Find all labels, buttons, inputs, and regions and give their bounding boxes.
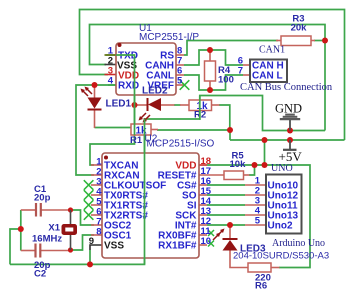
- svg-text:R1: R1: [130, 135, 143, 146]
- wire SPI CS row: [207, 184, 245, 186]
- crystal X1: [62, 210, 77, 250]
- lead R5 right: [244, 174, 250, 176]
- wire VSS U2 to rail: [89, 250, 91, 264]
- svg-text:MCP2515-I/SO: MCP2515-I/SO: [147, 138, 215, 149]
- resistor R3: [281, 36, 311, 46]
- svg-text:LED1: LED1: [106, 99, 132, 110]
- wire VSS inner loop from U1 pin2: [90, 25, 326, 131]
- U2 pin numbers left: [89, 157, 103, 248]
- svg-text:CAN1: CAN1: [259, 45, 285, 56]
- svg-text:LED2: LED2: [142, 86, 168, 97]
- pin stub U1.8 RS: [176, 54, 184, 56]
- junction VDD row drop: [262, 162, 268, 168]
- lead LED3 anode: [229, 226, 231, 239]
- pin stub U2.9 VSS black: [90, 245, 102, 250]
- lead C2 left: [21, 250, 36, 252]
- U1 pin names: [117, 51, 174, 92]
- pin stub CAN1.7: [243, 74, 250, 76]
- wire VDD outer loop from U1 pin3: [80, 10, 345, 141]
- svg-text:100: 100: [218, 75, 234, 86]
- svg-text:R6: R6: [255, 281, 267, 292]
- junction VSS rail: [87, 261, 93, 267]
- lead LED1 cathode: [94, 110, 96, 128]
- svg-text:RX1BF#: RX1BF#: [158, 241, 197, 252]
- lead R6 left from LED3: [230, 251, 248, 268]
- U1 labels: [139, 23, 199, 43]
- pin stub U2.13: [199, 214, 207, 216]
- pin stub U2.17 with R5 lead: [199, 174, 224, 176]
- lead R1 right: [151, 129, 158, 131]
- pin stub U2.14: [199, 204, 207, 206]
- stubs and component leads (salmon red): [21, 41, 315, 268]
- wire caps to GND rail: [10, 229, 21, 264]
- pin stub U1.3 VDD: [105, 74, 117, 76]
- wire U2 VDD row: [207, 165, 310, 268]
- LED1: [81, 87, 102, 110]
- svg-text:Uno2: Uno2: [268, 221, 293, 232]
- lead R4 bottom: [209, 81, 211, 90]
- pin stub U1.1 TXD olive overlay: [105, 54, 117, 56]
- wire GND bottom rail to upper GND segment: [10, 96, 325, 265]
- lead R2 left: [180, 104, 189, 106]
- pin stub UNO.4: [245, 214, 266, 216]
- junction R3 right: [322, 38, 328, 44]
- svg-text:UNO: UNO: [271, 163, 293, 174]
- pin stub U2.6: [91, 214, 102, 216]
- lead LED2 left: [136, 104, 147, 106]
- wire GND riser overlay crossing U2 R1 R2: [144, 119, 146, 264]
- wire LED2 to R2: [174, 104, 181, 106]
- wire RXD from U1 pin4 down to U2 RXCAN: [76, 85, 116, 175]
- pin stub U2.3: [91, 184, 102, 186]
- wire SPI SCK row: [207, 214, 245, 216]
- svg-text:4: 4: [108, 76, 114, 87]
- pin stub U2.10: [199, 244, 207, 246]
- wire CANH routing: [184, 50, 243, 65]
- junction LED2 on TXD drop: [132, 102, 138, 108]
- IC U2 MCP2515 body: [102, 153, 199, 258]
- no-connect U2.6: [84, 210, 94, 220]
- wire R2 right down to rail: [219, 105, 230, 130]
- svg-text:16MHz: 16MHz: [32, 234, 62, 245]
- U2 pin numbers right: [201, 156, 212, 247]
- component value labels: [32, 14, 329, 292]
- svg-text:204-10SURD/S530-A3: 204-10SURD/S530-A3: [233, 251, 329, 262]
- svg-text:20p: 20p: [34, 193, 51, 204]
- capacitor C2: [36, 244, 41, 258]
- pin stub U2.4: [91, 194, 102, 196]
- no-connect U2.5: [84, 200, 94, 210]
- pin stub U1.4 RXD green: [108, 84, 116, 86]
- lead R2 right: [212, 104, 220, 106]
- wire TXD vertical overlay crossing U1 and R1: [116, 55, 135, 135]
- wire R3 right to GND loop: [314, 40, 325, 42]
- wire INT row: [207, 224, 245, 226]
- pin stub U2.1 TXCAN: [91, 164, 102, 166]
- svg-text:RXD: RXD: [118, 81, 139, 92]
- pin stub U2.5: [91, 204, 102, 206]
- no-connect U1.5: [180, 80, 190, 90]
- lead LED1 anode: [94, 86, 96, 98]
- junction +5V drop: [262, 137, 268, 143]
- pin stub UNO.3: [245, 204, 266, 206]
- wire C1 C2 left join: [20, 210, 22, 251]
- pin stub UNO.1: [245, 184, 266, 186]
- wire SPI SI row: [207, 204, 245, 206]
- pin stub CAN1.6: [243, 64, 250, 66]
- no-connect U2.11: [208, 230, 214, 236]
- lead R4 top: [209, 50, 211, 61]
- pin stub U1.5 VREF: [176, 84, 184, 86]
- no-connect U2.3: [84, 180, 94, 190]
- resistor R6: [248, 263, 271, 272]
- pin stub U1.2 VSS: [105, 64, 117, 66]
- capacitor C1: [36, 203, 41, 217]
- IC U1 MCP2551 body: [116, 43, 176, 95]
- LED3: [213, 229, 238, 251]
- junction R4 bottom: [207, 87, 213, 93]
- no-connect X marks: [84, 80, 214, 246]
- lead C1 right: [41, 209, 71, 211]
- pin stub U2.15: [199, 194, 207, 196]
- lead R6 right: [271, 267, 280, 269]
- resistor R2: [189, 100, 212, 112]
- svg-text:X1: X1: [48, 223, 60, 234]
- svg-text:CAN L: CAN L: [252, 71, 283, 82]
- junction R4 top: [207, 47, 213, 53]
- no-connect U2.10: [208, 241, 214, 247]
- wire crystal top to OSC2: [71, 210, 95, 225]
- junction crystal bottom: [68, 247, 73, 252]
- U2 labels: [145, 134, 215, 150]
- svg-text:C2: C2: [34, 269, 46, 280]
- wire TXD from U1 pin1 through chip to U2 TXCAN: [106, 55, 135, 124]
- junction caps left: [18, 226, 24, 232]
- junction LED3 anode on INT: [227, 222, 233, 228]
- connector CAN1 body: [250, 60, 287, 83]
- svg-text:Arduino Uno: Arduino Uno: [272, 238, 325, 249]
- wire crystal bottom to OSC1: [71, 235, 95, 250]
- svg-text:10: 10: [201, 236, 212, 247]
- junction LED return rail: [227, 127, 233, 133]
- LED2: [139, 98, 162, 123]
- pin stub UNO.5: [245, 224, 266, 226]
- resistor R4: [205, 61, 216, 81]
- no-connect U2.4: [84, 190, 94, 200]
- resistor R1: [131, 124, 151, 137]
- wire GND riser overlay crossing R2: [199, 96, 201, 120]
- lead R3 left: [276, 40, 281, 42]
- pin stub U2.11: [199, 234, 207, 236]
- lead C2 right: [40, 250, 71, 252]
- connector UNO body: [266, 175, 302, 234]
- resistor R5: [224, 171, 244, 180]
- pin stub U2.16: [199, 184, 207, 186]
- svg-text:9: 9: [89, 236, 94, 247]
- wire CANL routing: [184, 75, 243, 90]
- junction +5V symbol: [287, 137, 293, 143]
- wire LED1 cathode to R1: [95, 127, 132, 129]
- wire RS to R3: [184, 41, 278, 56]
- wire R1 right to LED return rail: [157, 130, 230, 140]
- svg-text:5: 5: [255, 216, 261, 227]
- power symbol +5V: [279, 140, 303, 164]
- pin stub U2.7 OSC2: [91, 224, 102, 226]
- wire SPI SO row: [207, 194, 245, 196]
- svg-text:8: 8: [96, 227, 101, 238]
- U2 pin names: [104, 161, 197, 252]
- svg-text:5: 5: [177, 76, 183, 87]
- lead C1 left: [21, 209, 36, 211]
- lead R3 right: [311, 40, 315, 42]
- svg-text:10k: 10k: [230, 159, 247, 170]
- serif labels: [240, 45, 333, 250]
- svg-text:7: 7: [238, 66, 243, 77]
- svg-text:VSS: VSS: [104, 241, 124, 252]
- junction R5 top: [252, 162, 258, 168]
- ground symbol GND: [275, 102, 302, 131]
- junction LED1 anode on RXD: [92, 82, 98, 88]
- wire +5V rail: [230, 139, 345, 141]
- pin stub U2.12 INT: [199, 224, 207, 226]
- pin stub U2.18 VDD: [199, 164, 207, 166]
- wire +5V drop to U2 VDD row: [264, 140, 266, 165]
- pin stub UNO.2: [245, 194, 266, 196]
- svg-text:+5V: +5V: [279, 149, 303, 164]
- pin stub U2.8 OSC1: [91, 234, 102, 236]
- CAN1 pin numbers: [238, 56, 243, 77]
- wire R5 riser: [249, 165, 255, 175]
- U1 pin numbers: [108, 46, 183, 87]
- svg-text:CAN Bus Connection: CAN Bus Connection: [240, 82, 333, 93]
- svg-text:20k: 20k: [291, 23, 308, 34]
- UNO pin numbers: [255, 176, 261, 227]
- svg-text:MCP2551-I/P: MCP2551-I/P: [139, 32, 199, 43]
- pin stub U1.6 CANL: [176, 74, 184, 76]
- junction GND symbol: [287, 128, 293, 134]
- junction crystal top: [68, 207, 73, 212]
- pin stub U1.7 CANH: [176, 64, 184, 66]
- pin stub U2.2 RXCAN: [91, 174, 102, 176]
- svg-text:GND: GND: [275, 102, 302, 116]
- lead LED2 right: [161, 104, 175, 106]
